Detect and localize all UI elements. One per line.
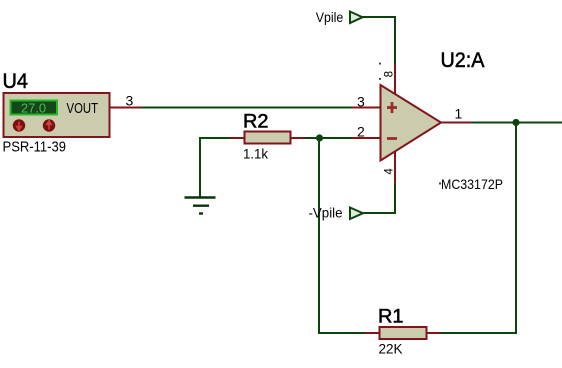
svg-text:R1: R1 bbox=[378, 307, 404, 328]
svg-text:U2:A: U2:A bbox=[441, 49, 485, 72]
svg-text:U4: U4 bbox=[3, 70, 29, 93]
svg-text:VOUT: VOUT bbox=[67, 100, 99, 117]
svg-text:3: 3 bbox=[126, 93, 134, 109]
svg-text:3: 3 bbox=[357, 94, 365, 110]
svg-text:PSR-11-39: PSR-11-39 bbox=[3, 139, 67, 156]
svg-text:1.1k: 1.1k bbox=[243, 146, 269, 162]
svg-text:R2: R2 bbox=[243, 112, 269, 133]
svg-text:8: 8 bbox=[383, 71, 395, 77]
svg-text:27.0: 27.0 bbox=[21, 101, 46, 116]
svg-text:-Vpile: -Vpile bbox=[309, 205, 343, 221]
svg-text:MC33172P: MC33172P bbox=[441, 176, 503, 192]
svg-text:4: 4 bbox=[384, 168, 396, 175]
svg-text:2: 2 bbox=[357, 124, 365, 140]
svg-text:1: 1 bbox=[455, 106, 463, 122]
svg-text:22K: 22K bbox=[379, 341, 404, 357]
svg-text:Vpile: Vpile bbox=[316, 9, 344, 25]
